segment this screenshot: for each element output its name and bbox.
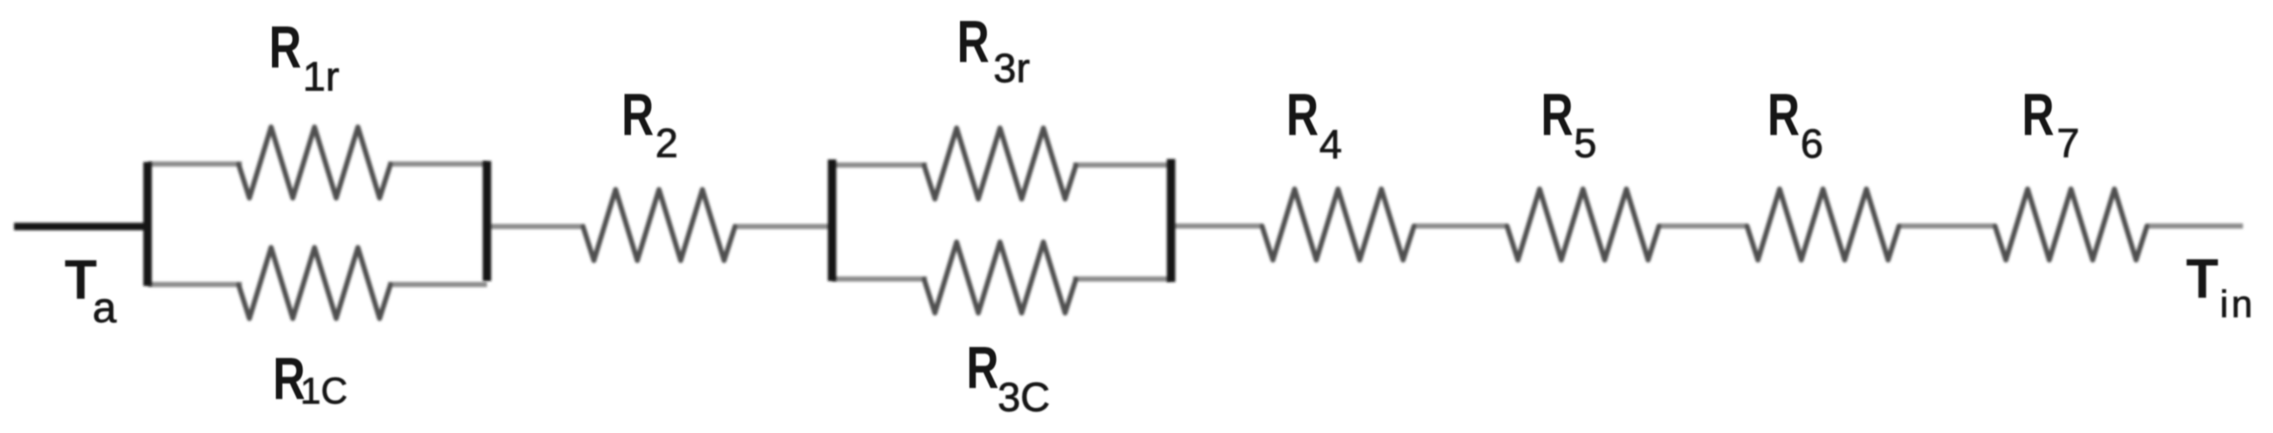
- resistor R3r: [924, 128, 1076, 199]
- wire R4 to R5: [1414, 223, 1507, 228]
- junction bar box2 right: [1167, 159, 1176, 282]
- svg-text:R: R: [1541, 83, 1573, 148]
- svg-text:6: 6: [1801, 121, 1824, 167]
- svg-text:5: 5: [1574, 120, 1597, 166]
- svg-text:1r: 1r: [303, 54, 339, 100]
- resistor R1C: [239, 248, 391, 319]
- resistor R3C: [924, 242, 1076, 313]
- svg-text:2: 2: [655, 120, 678, 166]
- wire node between box1 and R2: [489, 224, 585, 229]
- svg-text:R: R: [269, 16, 301, 81]
- wire box1 bottom branch: [148, 282, 487, 287]
- resistor R4: [1262, 189, 1414, 260]
- junction bar box1 right: [483, 161, 492, 281]
- svg-text:R: R: [1286, 83, 1318, 148]
- label R1r: [269, 16, 301, 81]
- label Tin: [2186, 247, 2218, 310]
- svg-text:R: R: [966, 336, 998, 401]
- resistor R2: [583, 190, 735, 261]
- svg-text:7: 7: [2057, 120, 2080, 166]
- label Ta: [65, 248, 97, 311]
- wire box1 top branch: [148, 161, 487, 166]
- label R3C: [966, 336, 998, 401]
- svg-text:3C: 3C: [998, 374, 1050, 420]
- wire box2 to R4: [1173, 223, 1262, 228]
- wire terminal lead Ta: [14, 223, 148, 231]
- svg-text:a: a: [93, 284, 117, 332]
- wire R6 to R7: [1899, 223, 1995, 228]
- svg-text:in: in: [2220, 284, 2256, 326]
- resistor R1r: [239, 127, 391, 198]
- label R4: [1286, 83, 1318, 148]
- svg-text:4: 4: [1319, 121, 1342, 167]
- junction bar box1 left: [143, 162, 152, 286]
- svg-text:R: R: [957, 10, 989, 75]
- wire R7 to node Tin: [2147, 223, 2243, 228]
- wire R5 to R6: [1659, 223, 1747, 228]
- wire box2 bottom branch: [832, 276, 1170, 281]
- svg-text:R: R: [622, 83, 654, 148]
- resistor R7: [1995, 189, 2147, 260]
- label R6: [1767, 83, 1799, 148]
- label R2: [622, 83, 654, 148]
- resistor R5: [1507, 189, 1659, 260]
- svg-text:1C: 1C: [300, 370, 347, 411]
- label R7: [2022, 83, 2054, 148]
- wire box2 top branch: [832, 162, 1170, 167]
- svg-text:R: R: [1767, 83, 1799, 148]
- label R3r: [957, 10, 989, 75]
- wire node between R2 and box2: [733, 224, 832, 229]
- label R1C: [273, 347, 305, 412]
- svg-text:R: R: [2022, 83, 2054, 148]
- junction bar box2 left: [828, 160, 837, 282]
- svg-text:3r: 3r: [993, 45, 1029, 91]
- resistor R6: [1747, 189, 1899, 260]
- svg-text:T: T: [2186, 247, 2218, 310]
- label R5: [1541, 83, 1573, 148]
